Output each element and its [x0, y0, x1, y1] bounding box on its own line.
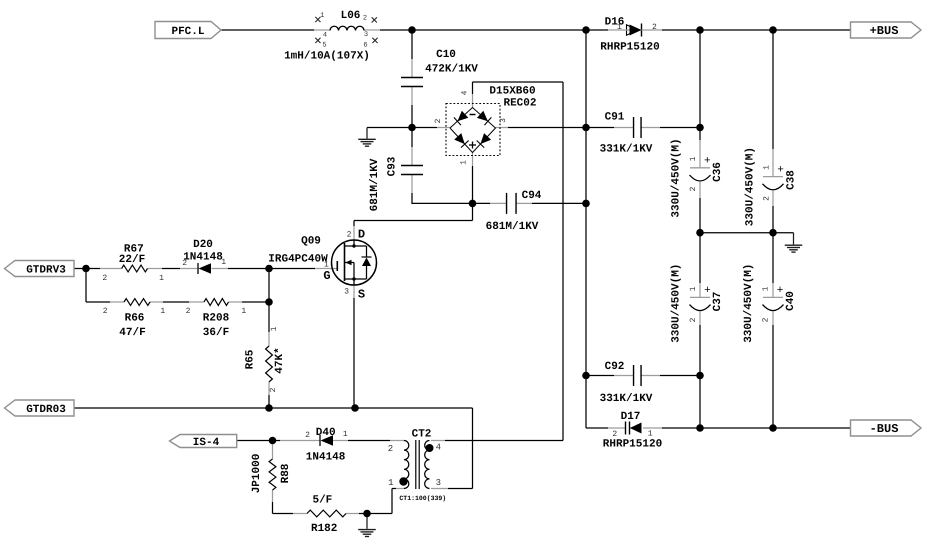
svg-text:1N4148: 1N4148 [306, 452, 346, 464]
svg-text:RHRP15120: RHRP15120 [600, 42, 659, 54]
svg-text:C38: C38 [786, 170, 798, 190]
svg-text:+: + [777, 285, 784, 297]
svg-text:1: 1 [221, 258, 226, 267]
svg-text:472K/1KV: 472K/1KV [425, 64, 478, 76]
svg-text:1: 1 [343, 430, 348, 439]
svg-text:2: 2 [102, 274, 107, 283]
svg-text:+BUS: +BUS [870, 24, 899, 38]
svg-text:IS-4: IS-4 [193, 437, 220, 449]
svg-text:2: 2 [761, 317, 770, 322]
svg-text:330U/450V(M): 330U/450V(M) [744, 147, 756, 226]
svg-text:2: 2 [182, 259, 187, 268]
svg-text:C10: C10 [436, 49, 456, 61]
svg-text:+: + [704, 156, 711, 168]
svg-text:R66: R66 [125, 313, 145, 325]
svg-text:IRG4PC40W: IRG4PC40W [268, 254, 328, 266]
svg-text:47/F: 47/F [119, 327, 145, 339]
svg-text:-BUS: -BUS [870, 422, 899, 436]
svg-text:D20: D20 [193, 239, 213, 251]
svg-text:3: 3 [499, 118, 508, 123]
svg-text:1: 1 [689, 156, 698, 161]
svg-text:PFC.L: PFC.L [171, 26, 204, 38]
svg-text:1: 1 [270, 326, 279, 331]
svg-text:D17: D17 [621, 411, 641, 423]
svg-text:2: 2 [269, 387, 278, 392]
svg-text:3: 3 [344, 288, 349, 297]
svg-text:2: 2 [103, 307, 108, 316]
svg-text:R182: R182 [311, 523, 337, 535]
svg-text:C40: C40 [785, 291, 797, 311]
svg-text:L06: L06 [341, 10, 361, 22]
svg-text:3: 3 [364, 31, 368, 39]
svg-text:1: 1 [460, 160, 469, 165]
svg-text:C91: C91 [605, 112, 625, 124]
svg-text:CT1:100(339): CT1:100(339) [399, 495, 446, 502]
svg-text:JP1000: JP1000 [251, 454, 263, 494]
svg-text:2: 2 [612, 430, 617, 439]
svg-text:2: 2 [689, 186, 698, 191]
svg-text:1: 1 [324, 261, 329, 270]
svg-text:CT2: CT2 [412, 429, 432, 441]
svg-text:RHRP15120: RHRP15120 [603, 439, 662, 451]
svg-text:2: 2 [652, 23, 657, 32]
svg-text:5/F: 5/F [312, 495, 332, 507]
svg-text:331K/1KV: 331K/1KV [600, 144, 653, 156]
svg-text:1: 1 [388, 478, 393, 488]
svg-text:1: 1 [320, 12, 324, 20]
svg-text:47K*: 47K* [274, 347, 286, 373]
svg-text:2: 2 [762, 196, 771, 201]
svg-text:2: 2 [689, 317, 698, 322]
svg-text:GTDR03: GTDR03 [26, 404, 66, 416]
svg-text:681M/1KV: 681M/1KV [369, 158, 381, 211]
svg-text:2: 2 [347, 231, 352, 240]
svg-text:1: 1 [762, 165, 771, 170]
svg-text:C37: C37 [712, 292, 724, 312]
svg-text:Q09: Q09 [301, 236, 321, 248]
svg-text:3: 3 [436, 478, 441, 488]
svg-text:330U/450V(M): 330U/450V(M) [671, 138, 683, 217]
svg-text:1: 1 [648, 430, 653, 439]
svg-text:GTDRV3: GTDRV3 [26, 265, 66, 277]
svg-text:22/F: 22/F [119, 254, 145, 266]
svg-text:D15XB60: D15XB60 [489, 86, 535, 98]
svg-text:5: 5 [322, 42, 326, 50]
svg-text:G: G [323, 269, 330, 283]
svg-text:1N4148: 1N4148 [183, 252, 223, 264]
svg-text:1mH/10A(107X): 1mH/10A(107X) [284, 51, 370, 63]
svg-text:330U/450V(M): 330U/450V(M) [671, 264, 683, 343]
svg-text:331K/1KV: 331K/1KV [600, 393, 653, 405]
svg-text:1: 1 [617, 23, 622, 32]
svg-text:D: D [358, 228, 365, 242]
svg-text:6: 6 [363, 42, 367, 50]
svg-text:36/F: 36/F [203, 327, 229, 339]
svg-text:4: 4 [436, 443, 441, 453]
svg-text:330U/450V(M): 330U/450V(M) [743, 264, 755, 343]
svg-text:REC02: REC02 [503, 98, 536, 110]
svg-text:1: 1 [689, 286, 698, 291]
svg-text:2: 2 [388, 444, 393, 454]
svg-text:+: + [777, 165, 784, 177]
svg-text:S: S [358, 288, 365, 302]
svg-text:2: 2 [186, 307, 191, 316]
svg-text:C94: C94 [522, 190, 542, 202]
svg-text:4: 4 [461, 90, 470, 95]
svg-text:2: 2 [434, 118, 443, 123]
svg-text:R65: R65 [245, 349, 257, 369]
svg-text:681M/1KV: 681M/1KV [486, 221, 539, 233]
svg-text:4: 4 [323, 32, 327, 40]
svg-text:R88: R88 [280, 463, 292, 483]
svg-text:C36: C36 [712, 162, 724, 182]
svg-text:R208: R208 [203, 313, 230, 325]
svg-text:D40: D40 [316, 427, 336, 439]
svg-text:1: 1 [159, 274, 164, 283]
svg-text:2: 2 [363, 15, 367, 23]
svg-text:C92: C92 [605, 361, 625, 373]
svg-text:1: 1 [160, 307, 165, 316]
svg-text:C93: C93 [387, 156, 399, 176]
svg-text:2: 2 [305, 431, 310, 440]
svg-text:+: + [704, 285, 711, 297]
svg-text:1: 1 [241, 307, 246, 316]
svg-text:1: 1 [761, 286, 770, 291]
